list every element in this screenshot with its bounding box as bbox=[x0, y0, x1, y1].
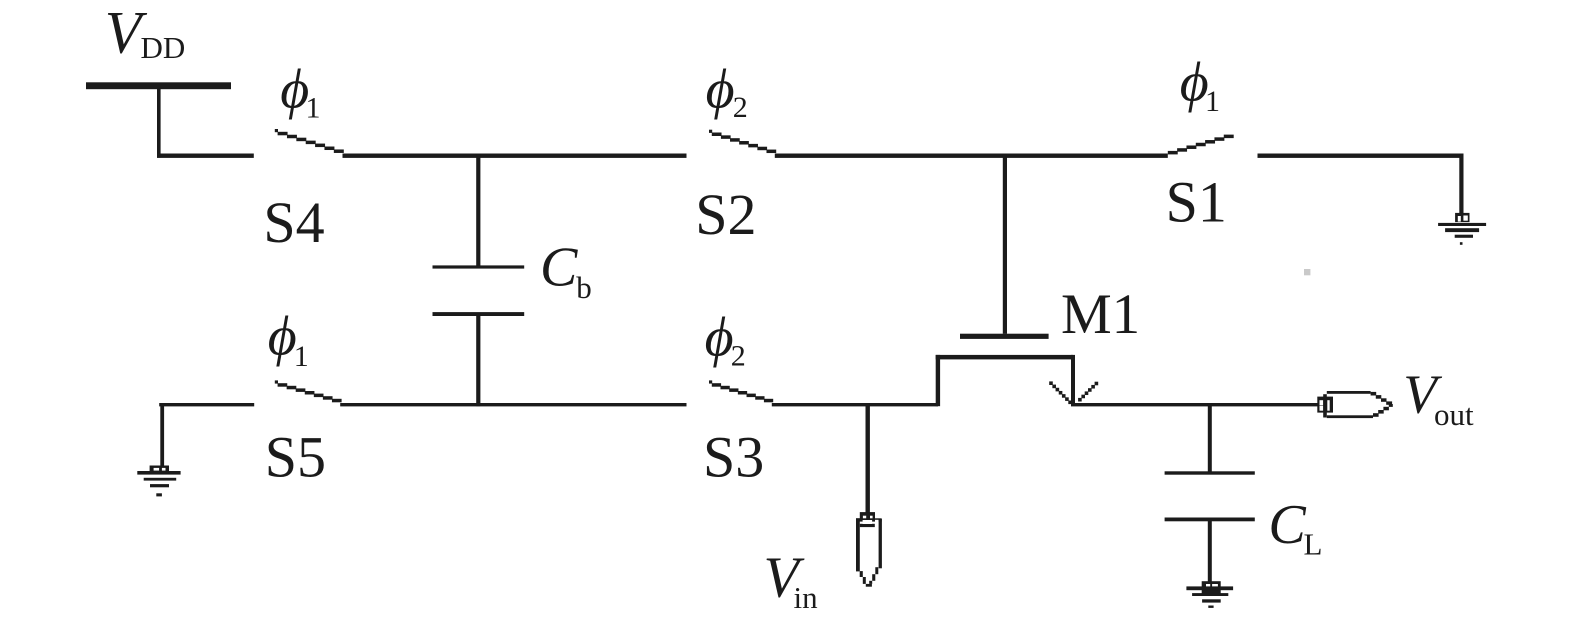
svg-text:S3: S3 bbox=[703, 425, 764, 490]
capacitor Cb bottom stub bbox=[476, 316, 480, 406]
transistor M1 channel bbox=[936, 355, 1073, 360]
probe Vout terminal bbox=[1317, 391, 1393, 418]
wire bottom-left stub bbox=[159, 403, 254, 406]
switch S3 arm (phi2) bbox=[709, 380, 773, 402]
label CL bbox=[1268, 494, 1322, 561]
capacitor CL top plate bbox=[1165, 471, 1255, 474]
transistor M1 left leg (drain) bbox=[936, 355, 940, 406]
ground left-bottom bbox=[137, 466, 180, 497]
svg-text:ϕ: ϕ bbox=[705, 307, 734, 369]
capacitor Cb top stub bbox=[476, 154, 480, 266]
wire right drop to ground bbox=[1459, 154, 1463, 214]
capacitor Cb top plate bbox=[433, 265, 525, 268]
transistor M1 source arrow right stroke bbox=[1078, 382, 1098, 402]
transistor M1 gate wire bbox=[1003, 154, 1007, 334]
transistor M1 source arrow left stroke bbox=[1049, 381, 1072, 404]
svg-text:b: b bbox=[576, 270, 592, 305]
label phi2 of S3 bbox=[705, 307, 746, 373]
svg-text:1: 1 bbox=[306, 91, 321, 124]
switch S2 arm (phi2) bbox=[709, 130, 776, 153]
switch S1 arm (phi1) bbox=[1168, 135, 1234, 155]
power rail VDD bar bbox=[86, 82, 231, 89]
svg-text:ϕ: ϕ bbox=[706, 59, 735, 121]
label VDD bbox=[105, 0, 185, 65]
label phi2 of S2 bbox=[706, 59, 748, 125]
svg-text:L: L bbox=[1304, 526, 1323, 561]
svg-text:C: C bbox=[1268, 494, 1306, 556]
svg-text:S1: S1 bbox=[1166, 169, 1227, 234]
switch S5 arm (phi1) bbox=[275, 380, 342, 402]
label Cb bbox=[540, 237, 592, 305]
svg-text:in: in bbox=[794, 580, 819, 615]
label Vin bbox=[764, 545, 819, 615]
wire bottom rail S5-S3 bbox=[340, 403, 686, 406]
label Vout bbox=[1403, 363, 1474, 432]
svg-text:S2: S2 bbox=[695, 182, 756, 247]
ground CL-bottom bbox=[1186, 581, 1233, 608]
transistor M1 gate plate bbox=[960, 334, 1049, 339]
wire Vin stub down bbox=[866, 403, 870, 514]
svg-text:2: 2 bbox=[733, 91, 748, 124]
capacitor CL top stub bbox=[1208, 403, 1212, 472]
svg-text:S5: S5 bbox=[265, 425, 326, 490]
capacitor Cb bottom plate bbox=[433, 312, 525, 316]
wire VDD stub down bbox=[157, 89, 161, 158]
svg-text:S4: S4 bbox=[263, 190, 324, 255]
svg-text:M1: M1 bbox=[1061, 283, 1140, 346]
svg-text:C: C bbox=[540, 237, 578, 299]
capacitor CL bottom stub bbox=[1208, 521, 1212, 582]
transistor M1 right leg (source) bbox=[1071, 355, 1075, 405]
wire bottom rail M1 to Vout bbox=[1071, 403, 1319, 406]
label phi1 of S1 bbox=[1180, 52, 1220, 119]
wire top rail S2-S1 bbox=[775, 154, 1168, 158]
probe Vin terminal bbox=[856, 512, 882, 587]
scan artifact gray speck bbox=[1304, 269, 1310, 275]
svg-text:1: 1 bbox=[294, 340, 309, 373]
svg-text:1: 1 bbox=[1205, 85, 1220, 118]
capacitor CL bottom plate bbox=[1165, 518, 1255, 522]
svg-text:2: 2 bbox=[731, 340, 746, 373]
wire VDD elbow to S4 bbox=[157, 154, 254, 158]
svg-text:out: out bbox=[1434, 397, 1474, 432]
ground right-top bbox=[1438, 213, 1486, 245]
svg-text:ϕ: ϕ bbox=[268, 306, 297, 368]
label phi1 of S4 bbox=[280, 59, 320, 125]
wire top rail S4-S2 bbox=[343, 154, 687, 158]
switch S4 arm (phi1) bbox=[275, 129, 344, 153]
label phi1 of S5 bbox=[268, 306, 309, 374]
wire top rail S1 to ground drop bbox=[1258, 154, 1464, 158]
wire bottom rail S3 to M1 bbox=[772, 403, 938, 406]
svg-text:DD: DD bbox=[141, 30, 186, 65]
wire left drop to ground bbox=[160, 403, 164, 466]
